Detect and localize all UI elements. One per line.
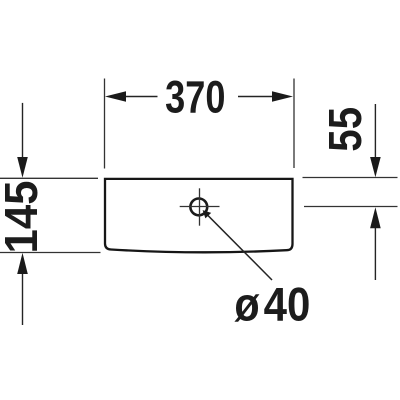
dim 55: lower arrow xyxy=(374,228,376,280)
cistern body outline xyxy=(105,179,293,252)
crosshair vertical xyxy=(199,188,201,225)
leader arrowhead at circle xyxy=(203,210,212,218)
dim 370: right arrow xyxy=(272,91,293,102)
svg-text:370: 370 xyxy=(165,72,225,123)
svg-text:55: 55 xyxy=(320,107,371,152)
dim 145: upper arrow xyxy=(22,103,24,158)
dim 370: left arrow xyxy=(105,91,126,102)
svg-text:145: 145 xyxy=(0,181,47,254)
drain hole circle xyxy=(190,199,207,216)
dim 370: right extension line xyxy=(293,79,295,169)
dim 55: bottom extension line xyxy=(304,206,398,208)
svg-text:40: 40 xyxy=(264,279,311,331)
svg-text:ø: ø xyxy=(234,279,259,331)
crosshair horizontal xyxy=(180,206,220,208)
dim 370: left extension line xyxy=(104,79,106,169)
dim 145: top extension line xyxy=(0,177,98,179)
dim 55: top extension line xyxy=(303,177,398,179)
dim 55: upper arrow xyxy=(374,104,376,158)
dim 145: bottom extension line xyxy=(0,252,101,254)
dim 145: lower arrow xyxy=(22,274,24,325)
leader line to ø40 label xyxy=(206,213,272,280)
